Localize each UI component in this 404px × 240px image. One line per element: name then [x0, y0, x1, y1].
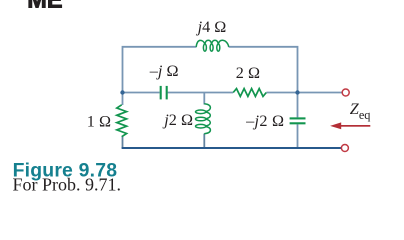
wire middle rail right of R2 to top terminal — [266, 92, 342, 94]
wire stub above inductor L2 — [203, 93, 205, 105]
capacitor C1 -j ohm (series, vertical plates) — [161, 86, 167, 100]
wire middle rail between C1 and R2 — [168, 92, 234, 94]
inductor L1 j4 ohm (top coil) — [196, 40, 229, 51]
svg-text:j2 Ω: j2 Ω — [162, 111, 193, 129]
wire right vertical below capacitor — [297, 124, 299, 148]
wire top rail left segment — [123, 47, 197, 105]
capacitor C2 -j2 ohm (shunt, horizontal plates) — [290, 118, 306, 123]
wire middle rail left of capacitor C1 — [123, 92, 160, 94]
svg-text:j4 Ω: j4 Ω — [196, 18, 227, 36]
wire left vertical bottom segment — [122, 137, 124, 148]
wire stub below inductor L2 — [203, 134, 205, 148]
junction dot node B (right middle) — [295, 90, 299, 94]
terminal a (top right, open circle) — [342, 89, 349, 96]
svg-text:1 Ω: 1 Ω — [87, 113, 111, 131]
inductor L2 j2 ohm (vertical coil) — [196, 104, 211, 134]
arrow indicating Zeq direction (points left) — [330, 122, 370, 129]
wire top rail right segment — [229, 47, 298, 118]
svg-text:Zeq: Zeq — [350, 100, 371, 122]
junction dot node A (left middle) — [120, 90, 124, 94]
wire bottom rail (dark) — [122, 147, 342, 149]
resistor R1 1 ohm (vertical zigzag) — [117, 105, 127, 137]
svg-text:ME: ME — [27, 0, 62, 13]
svg-text:–j2 Ω: –j2 Ω — [245, 112, 284, 130]
terminal b (bottom right, open circle) — [341, 145, 348, 152]
resistor R2 2 ohm (horizontal zigzag) — [233, 89, 266, 97]
svg-text:2 Ω: 2 Ω — [236, 64, 260, 82]
svg-text:–j Ω: –j Ω — [149, 62, 179, 80]
svg-text:For Prob. 9.71.: For Prob. 9.71. — [13, 175, 122, 195]
